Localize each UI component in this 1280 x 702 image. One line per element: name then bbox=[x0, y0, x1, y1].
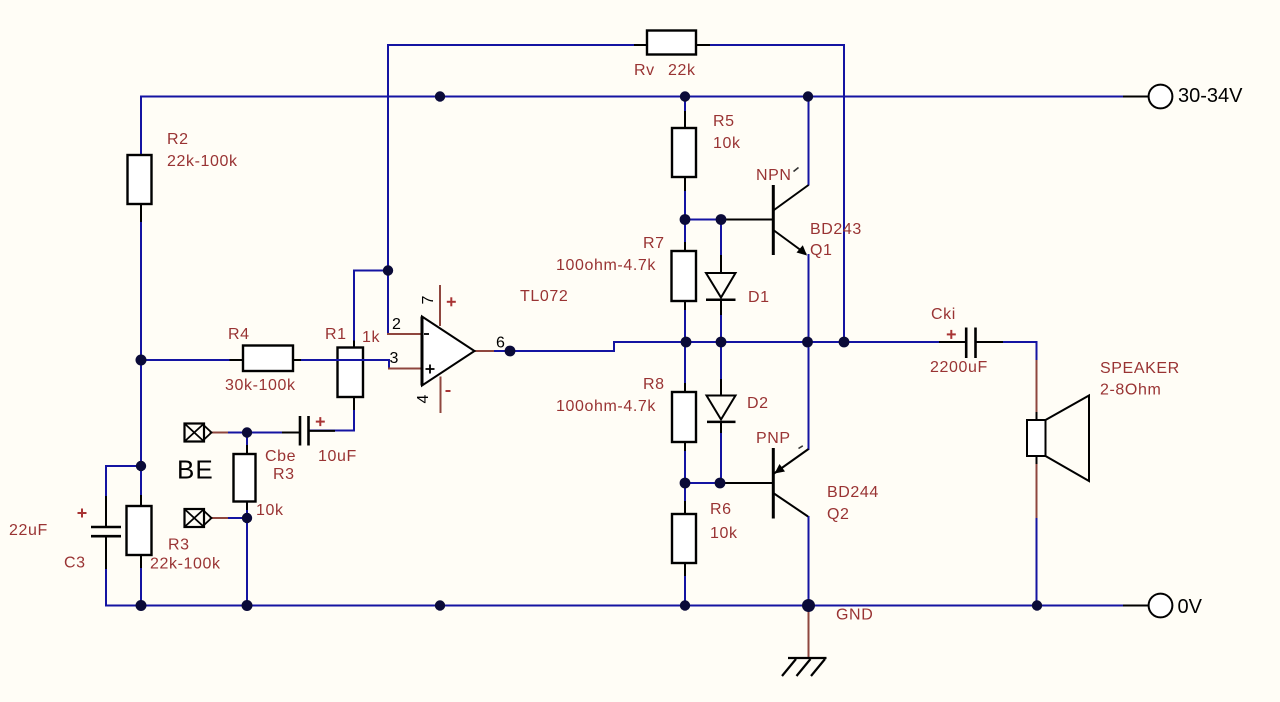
svg-text:PNP: PNP bbox=[756, 430, 791, 447]
svg-text:2200uF: 2200uF bbox=[930, 359, 988, 376]
svg-text:R6: R6 bbox=[710, 501, 732, 518]
svg-text:1k: 1k bbox=[362, 329, 380, 346]
svg-text:2: 2 bbox=[392, 316, 401, 333]
svg-text:R7: R7 bbox=[643, 235, 665, 252]
svg-text:D1: D1 bbox=[748, 289, 770, 306]
svg-text:Cbe: Cbe bbox=[265, 448, 296, 465]
svg-text:SPEAKER: SPEAKER bbox=[1100, 360, 1180, 377]
svg-text:30-34V: 30-34V bbox=[1178, 85, 1243, 107]
svg-text:22uF: 22uF bbox=[9, 522, 48, 539]
svg-text:100ohm-4.7k: 100ohm-4.7k bbox=[556, 257, 656, 274]
svg-text:Rv: Rv bbox=[634, 62, 655, 79]
svg-text:TL072: TL072 bbox=[520, 288, 568, 305]
svg-text:R1: R1 bbox=[325, 326, 347, 343]
svg-text:100ohm-4.7k: 100ohm-4.7k bbox=[556, 398, 656, 415]
svg-text:D2: D2 bbox=[747, 395, 769, 412]
svg-text:Cki: Cki bbox=[931, 306, 956, 323]
svg-text:22k-100k: 22k-100k bbox=[167, 153, 238, 170]
svg-text:GND: GND bbox=[836, 607, 873, 624]
svg-text:10k: 10k bbox=[256, 502, 284, 519]
svg-text:R8: R8 bbox=[643, 376, 665, 393]
svg-text:2-8Ohm: 2-8Ohm bbox=[1100, 382, 1161, 399]
svg-text:BE: BE bbox=[177, 455, 214, 485]
svg-text:4: 4 bbox=[415, 394, 432, 403]
svg-text:30k-100k: 30k-100k bbox=[225, 377, 296, 394]
svg-text:R5: R5 bbox=[713, 113, 735, 130]
svg-text:10uF: 10uF bbox=[318, 448, 357, 465]
svg-text:0V: 0V bbox=[1178, 596, 1203, 618]
svg-text:BD243: BD243 bbox=[810, 221, 862, 238]
svg-text:R4: R4 bbox=[228, 326, 250, 343]
svg-text:R3: R3 bbox=[273, 466, 295, 483]
svg-text:3: 3 bbox=[390, 350, 399, 367]
svg-text:R2: R2 bbox=[167, 131, 189, 148]
svg-text:NPN: NPN bbox=[756, 167, 792, 184]
svg-text:7: 7 bbox=[420, 295, 437, 304]
svg-text:Q1: Q1 bbox=[810, 242, 833, 259]
svg-text:BD244: BD244 bbox=[827, 484, 879, 501]
svg-text:R3: R3 bbox=[168, 537, 190, 554]
svg-text:10k: 10k bbox=[710, 525, 738, 542]
svg-text:22k-100k: 22k-100k bbox=[150, 556, 221, 573]
svg-text:10k: 10k bbox=[713, 135, 741, 152]
svg-text:22k: 22k bbox=[668, 62, 696, 79]
svg-text:C3: C3 bbox=[64, 555, 86, 572]
svg-text:Q2: Q2 bbox=[827, 506, 850, 523]
svg-text:6: 6 bbox=[496, 334, 505, 351]
